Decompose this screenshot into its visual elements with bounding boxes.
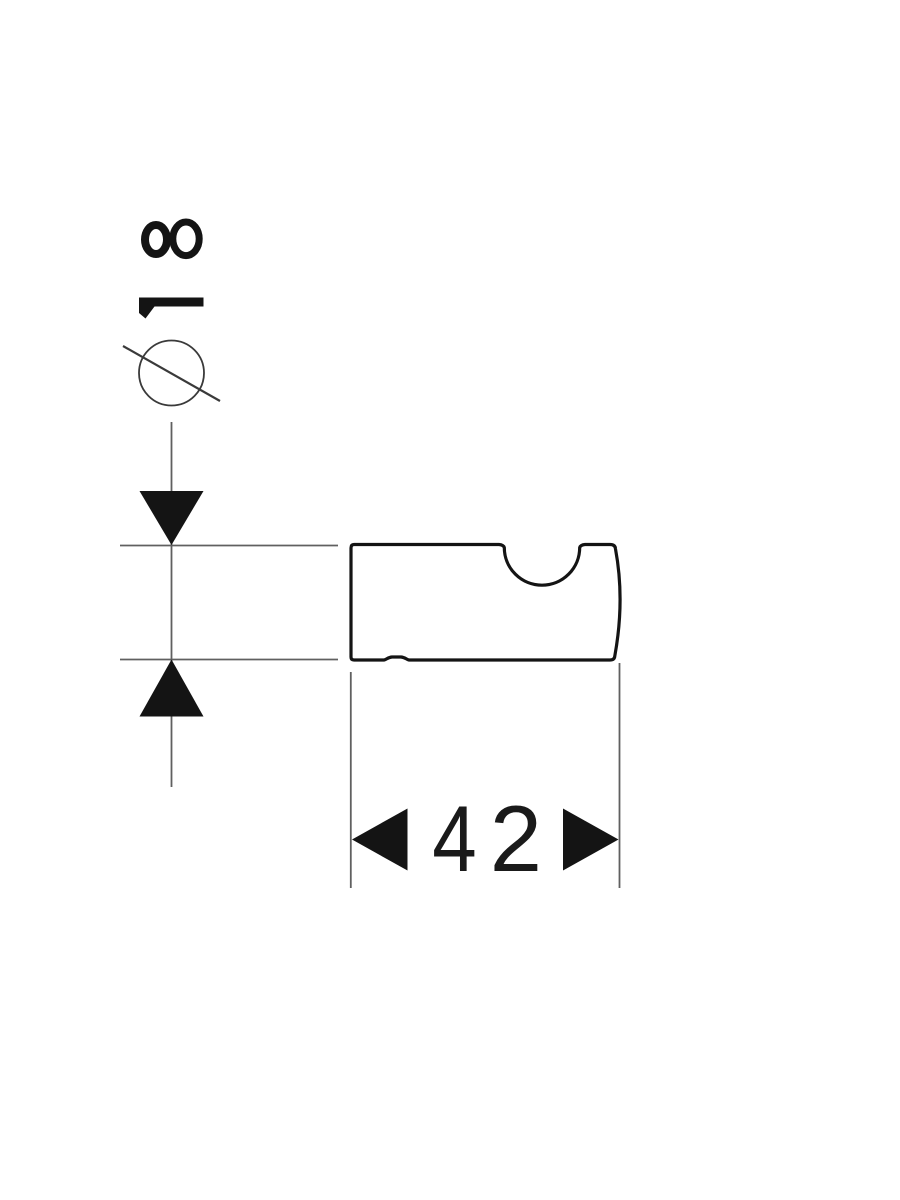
svg-text:2: 2 bbox=[490, 786, 542, 891]
svg-text:4: 4 bbox=[432, 787, 476, 892]
